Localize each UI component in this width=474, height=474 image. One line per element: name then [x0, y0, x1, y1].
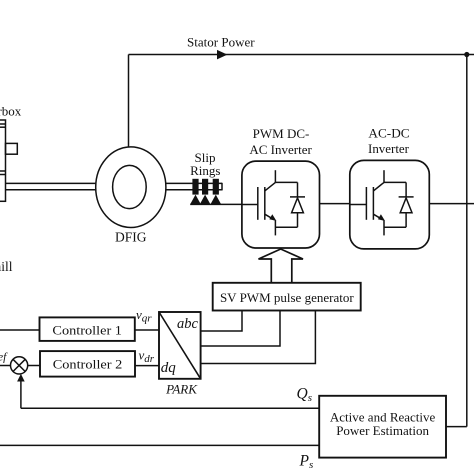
- svg-text:mill: mill: [0, 259, 13, 274]
- wire junction to Controller 2: [28, 365, 40, 367]
- block arrow SV PWM to inverter: [259, 249, 304, 283]
- summing junction (circle with X): [11, 357, 28, 374]
- PWM DC-AC inverter box: [242, 161, 320, 248]
- abc phase wire c: [201, 311, 316, 364]
- rotor shaft DFIG to slip rings: [166, 183, 222, 191]
- abc phase wire b: [201, 311, 280, 347]
- slip ring bar 1: [192, 179, 198, 195]
- svg-text:Stator Power: Stator Power: [187, 35, 255, 50]
- grid bus vertical wire: [466, 55, 468, 427]
- junction dot top right: [464, 52, 469, 57]
- svg-text:AC-DC: AC-DC: [368, 126, 409, 141]
- gearbox output flange: [6, 143, 18, 154]
- arrowhead on stator power wire: [217, 50, 227, 60]
- shaft gearbox to DFIG: [6, 183, 97, 189]
- brush 1: [190, 195, 201, 205]
- AC-DC inverter label: [368, 126, 410, 157]
- svg-text:rbox: rbox: [0, 104, 22, 119]
- brush 2: [200, 195, 211, 205]
- wire into Controller 1: [0, 329, 40, 331]
- Controller 1 box: [40, 317, 135, 341]
- rotor wire to PWM inverter: [190, 203, 242, 205]
- brush 3: [211, 195, 222, 205]
- DFIG inner rotor ellipse: [113, 165, 147, 208]
- Ps wire: [0, 444, 319, 446]
- Controller 2 box: [40, 351, 135, 377]
- svg-text:PWM DC-: PWM DC-: [253, 126, 310, 141]
- svg-text:Controller 2: Controller 2: [53, 357, 123, 372]
- stator power wire (horizontal to right edge): [129, 54, 474, 56]
- svg-text:Power Estimation: Power Estimation: [336, 423, 429, 438]
- svg-text:PARK: PARK: [165, 382, 198, 397]
- Qs feedback wire vertical with arrowhead: [20, 379, 22, 408]
- freewheeling diode D1: [290, 182, 305, 227]
- IGBT Q2: [350, 170, 406, 235]
- slip ring bar 3: [213, 179, 219, 195]
- svg-text:DFIG: DFIG: [115, 230, 147, 245]
- PWM DC-AC inverter label: [249, 126, 312, 157]
- wire into summing junction: [0, 365, 11, 367]
- PARK diagonal: [159, 312, 201, 379]
- svg-text:Controller 1: Controller 1: [52, 323, 122, 338]
- PARK transformation box: [159, 312, 201, 379]
- Qs feedback wire horizontal: [21, 407, 319, 409]
- freewheeling diode D2: [399, 182, 414, 227]
- wire Controller 2 to PARK: [135, 365, 159, 367]
- wire Controller 1 to PARK: [135, 329, 159, 331]
- wire estimation box to grid bus: [446, 426, 467, 428]
- svg-text:abc: abc: [177, 316, 199, 332]
- DFIG outer stator ellipse: [96, 147, 166, 228]
- AC-DC inverter box: [350, 160, 430, 249]
- slip ring bar 2: [202, 179, 208, 195]
- Active and Reactive Power Estimation label: [330, 410, 436, 439]
- SV PWM pulse generator box: [213, 283, 361, 311]
- gearbox housing (cut off at left edge): [0, 120, 6, 201]
- Active and Reactive Power Estimation box: [319, 396, 446, 458]
- svg-text:Rings: Rings: [190, 163, 220, 178]
- stator power wire (vertical from DFIG top): [128, 55, 130, 148]
- wire inverter1 to inverter2: [320, 203, 350, 205]
- svg-text:AC Inverter: AC Inverter: [249, 142, 312, 157]
- Slip Rings label: [190, 150, 220, 178]
- svg-text:dq: dq: [161, 360, 177, 376]
- svg-text:Inverter: Inverter: [368, 141, 410, 156]
- wire inverter2 to grid bus: [429, 203, 474, 205]
- svg-text:SV PWM pulse generator: SV PWM pulse generator: [220, 290, 354, 305]
- IGBT Q1: [242, 170, 298, 235]
- abc phase wire a: [201, 311, 242, 332]
